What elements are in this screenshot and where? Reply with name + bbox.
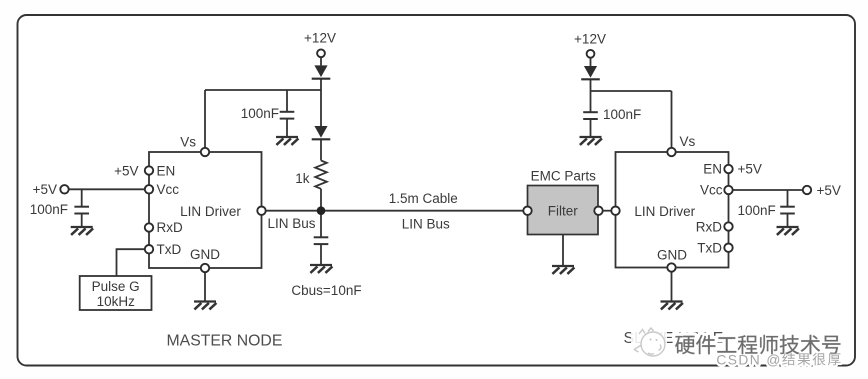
svg-text:+5V: +5V [738, 162, 762, 177]
svg-text:100nF: 100nF [241, 106, 279, 121]
svg-text:RxD: RxD [696, 220, 722, 235]
svg-text:Vcc: Vcc [700, 183, 723, 198]
svg-text:Vcc: Vcc [157, 182, 180, 197]
svg-text:100nF: 100nF [738, 203, 776, 218]
svg-text:Vs: Vs [680, 134, 696, 149]
svg-text:CSDN @: CSDN @ [716, 353, 781, 368]
svg-text:LIN Driver: LIN Driver [180, 204, 241, 219]
svg-text:GND: GND [190, 247, 220, 262]
svg-text:MASTER NODE: MASTER NODE [167, 333, 283, 350]
svg-text:GND: GND [657, 248, 687, 263]
svg-text:Pulse G: Pulse G [92, 279, 140, 294]
svg-text:EN: EN [703, 162, 722, 177]
svg-text:+12V: +12V [574, 31, 606, 46]
svg-text:EMC Parts: EMC Parts [531, 169, 597, 184]
svg-text:Cbus=10nF: Cbus=10nF [291, 283, 361, 298]
svg-text:LIN Driver: LIN Driver [634, 204, 695, 219]
svg-text:+5V: +5V [114, 164, 138, 179]
svg-text:TxD: TxD [697, 241, 722, 256]
svg-text:100nF: 100nF [30, 202, 68, 217]
svg-text:Vs: Vs [180, 134, 196, 149]
svg-text:LIN Bus: LIN Bus [268, 216, 316, 231]
svg-text:EN: EN [157, 164, 176, 179]
svg-text:RxD: RxD [157, 220, 183, 235]
svg-text:LIN Bus: LIN Bus [402, 217, 450, 232]
svg-text:1.5m Cable: 1.5m Cable [389, 191, 458, 206]
svg-text:Filter: Filter [548, 203, 579, 218]
svg-text:10kHz: 10kHz [97, 294, 136, 309]
svg-text:+5V: +5V [817, 183, 841, 198]
svg-text:+12V: +12V [304, 31, 336, 46]
svg-text:100nF: 100nF [603, 107, 641, 122]
svg-text:1k: 1k [295, 171, 310, 186]
svg-text:+5V: +5V [33, 182, 57, 197]
svg-text:TxD: TxD [157, 242, 182, 257]
